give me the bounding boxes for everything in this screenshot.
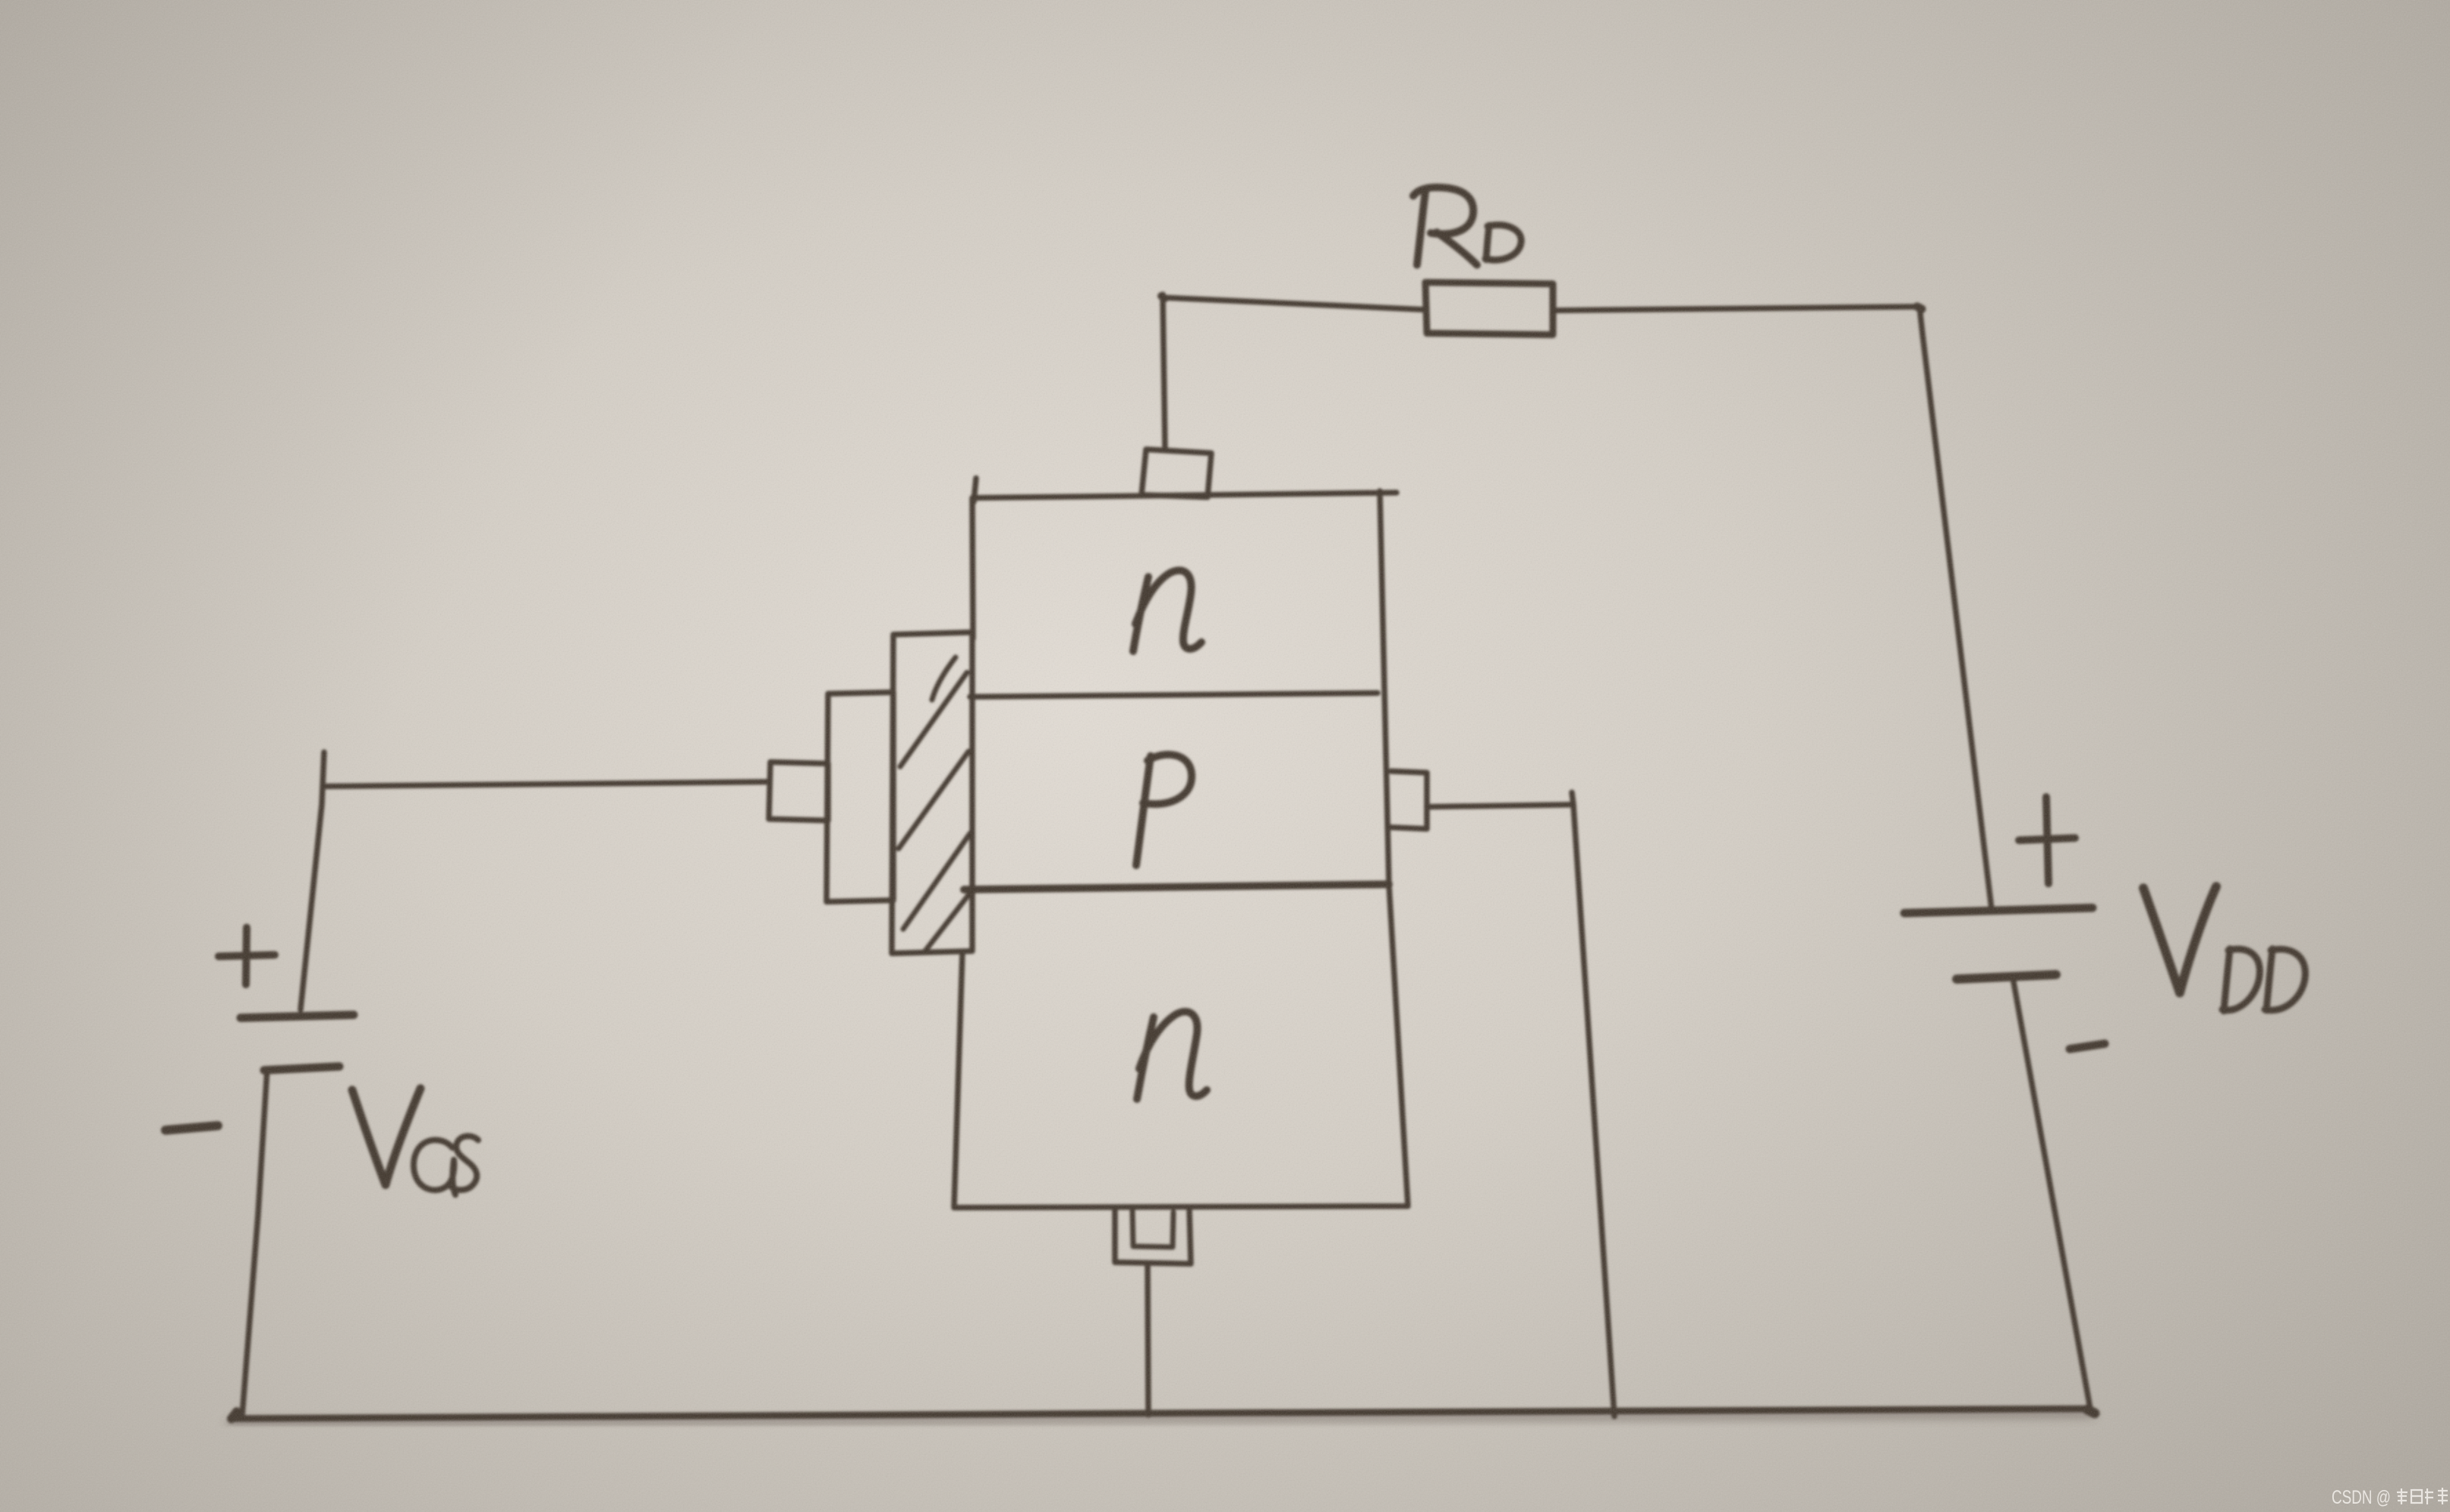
label P (middle region) <box>1136 754 1192 865</box>
battery VDD positive plate (long) <box>1904 908 2093 913</box>
label VDD: V <box>2143 887 2216 993</box>
label n (bottom region) <box>1137 1012 1207 1099</box>
plus sign VDD <box>2019 797 2075 884</box>
hatch stroke 5 <box>924 891 971 952</box>
gate metal rectangle <box>827 692 893 902</box>
wire VDD right vertical <box>1919 307 1992 909</box>
label RD resistor name: R <box>1413 187 1477 265</box>
wire bottom contact to rail <box>1148 1265 1148 1415</box>
gate oxide hatched rectangle <box>892 632 972 953</box>
pen blob VDD top corner <box>1917 307 1922 309</box>
source contact on P (right side) <box>1391 771 1427 829</box>
wire gate horizontal from VGS+ to gate contact <box>324 782 769 786</box>
battery VGS negative plate (short) <box>264 1066 339 1070</box>
bottom rail soft shadow <box>231 1413 2090 1424</box>
label VDD: subscript DD <box>2222 949 2259 1011</box>
wire drain vertical <box>1163 295 1165 449</box>
pen blob rail left end <box>231 1412 237 1419</box>
hatch stroke 2 <box>900 673 967 767</box>
pen blob rail right end <box>2087 1410 2095 1413</box>
label RD subscript D <box>1485 225 1521 260</box>
wire VGS+ riser (vertical from gate wire down to + plate) <box>301 752 324 1010</box>
pen blob drain corner <box>1161 296 1165 298</box>
wire resistor to VDD corner <box>1553 307 1919 310</box>
junction line n/P <box>970 693 1378 697</box>
drain contact (top electrode) <box>1142 449 1211 497</box>
wire VDD- down to bottom rail right end <box>2013 978 2090 1409</box>
wire drain to resistor <box>1163 298 1425 310</box>
wire VGS- down to bottom rail <box>242 1069 267 1416</box>
plus sign VGS <box>219 928 275 984</box>
battery VDD negative plate (short) <box>1957 975 2056 979</box>
battery VGS positive plate (long) <box>241 1015 354 1018</box>
substrate bottom contact <box>1115 1208 1191 1264</box>
watermark CSDN <box>2332 1487 2448 1508</box>
transistor body outer box <box>954 478 1408 1208</box>
svg-text:CSDN @: CSDN @ <box>2332 1487 2391 1508</box>
wire source contact to corner <box>1427 792 1573 807</box>
label VGS: subscript GS <box>414 1140 455 1195</box>
wire source down to bottom rail <box>1573 805 1614 1416</box>
hatch stroke 3 <box>899 751 968 849</box>
hatch stroke 1 (top tick) <box>932 657 956 700</box>
label VGS: V <box>352 1088 420 1185</box>
bottom rail (common net) <box>231 1409 2090 1419</box>
minus sign VGS <box>165 1126 218 1130</box>
hatch stroke 4 <box>903 833 970 929</box>
substrate bottom contact inner <box>1132 1211 1173 1247</box>
junction line P/n <box>964 884 1389 890</box>
label n (top region) <box>1133 571 1201 651</box>
resistor RD body <box>1425 282 1553 335</box>
gate contact nub <box>769 762 828 821</box>
minus sign VDD <box>2070 1044 2105 1049</box>
